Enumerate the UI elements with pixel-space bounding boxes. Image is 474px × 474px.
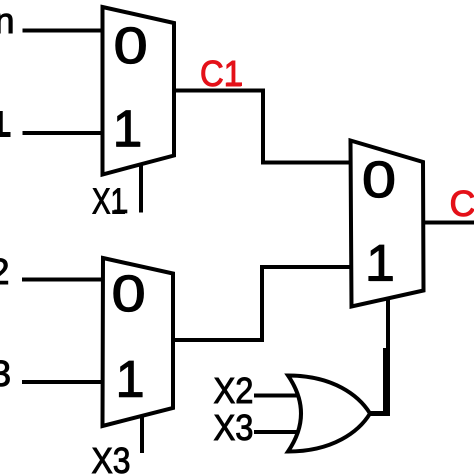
svg-text:1: 1 (116, 351, 144, 408)
svg-text:X3: X3 (92, 440, 131, 474)
svg-text:n: n (0, 0, 15, 41)
svg-text:X2: X2 (214, 370, 254, 411)
svg-text:C: C (450, 183, 474, 224)
svg-text:C1: C1 (200, 53, 242, 94)
svg-text:0: 0 (112, 265, 146, 322)
svg-text:1: 1 (0, 104, 10, 145)
svg-text:3: 3 (0, 353, 11, 394)
svg-text:0: 0 (114, 17, 148, 74)
svg-text:2: 2 (0, 251, 10, 292)
svg-text:X1: X1 (92, 181, 126, 222)
svg-text:X3: X3 (214, 407, 254, 448)
svg-text:1: 1 (113, 100, 141, 157)
svg-text:1: 1 (366, 234, 394, 291)
svg-text:0: 0 (362, 151, 396, 208)
